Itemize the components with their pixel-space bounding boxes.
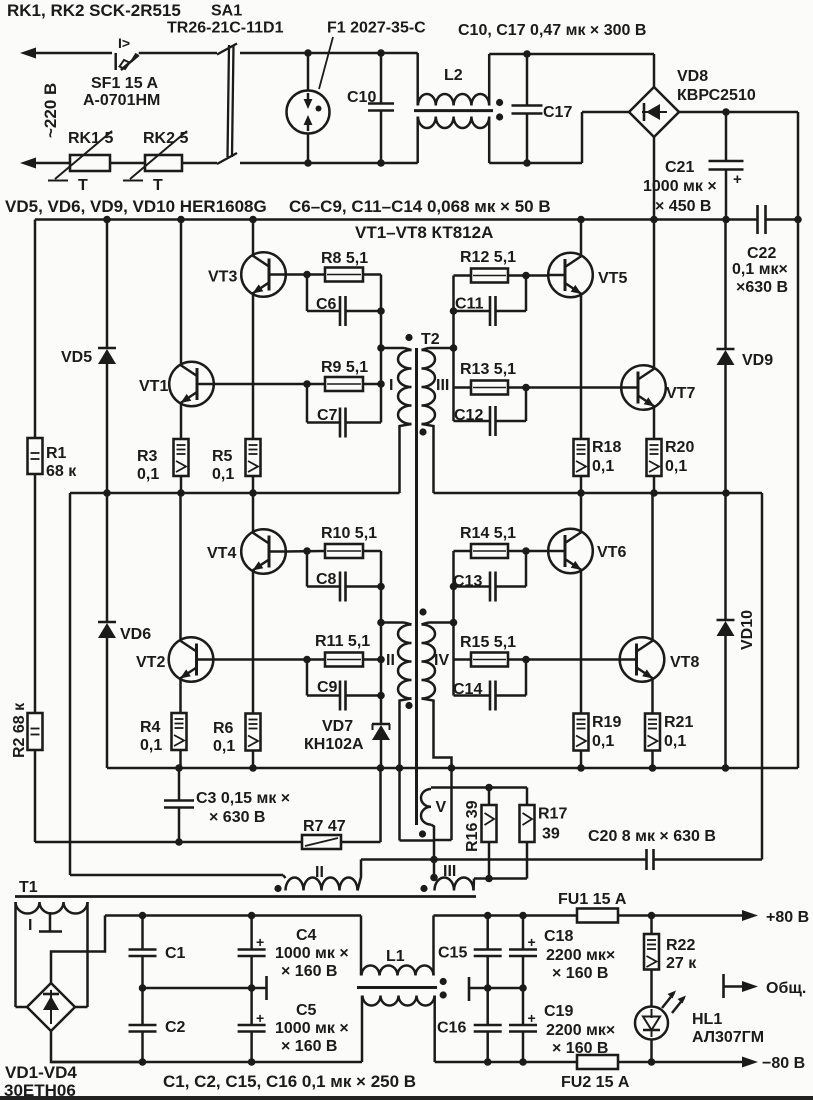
label L2 — [444, 67, 463, 84]
node junction T1 III — [430, 856, 438, 864]
resistor R21 — [645, 714, 660, 769]
svg-text:C9: C9 — [317, 679, 338, 696]
label SF1 15 A — [91, 75, 158, 92]
label VD5 — [61, 349, 92, 366]
resistor R18 — [574, 439, 589, 493]
label C13 — [453, 573, 482, 590]
resistor R15 — [471, 653, 508, 667]
wire T1 center tap — [39, 912, 62, 932]
svg-text:VT2: VT2 — [136, 654, 165, 671]
label AL307GM — [692, 1029, 764, 1046]
svg-text:+: + — [256, 1010, 264, 1026]
label VD7 — [322, 718, 353, 735]
node bus A right dots — [577, 489, 730, 497]
winding I of T1 — [16, 902, 88, 1007]
label VT7 — [666, 385, 695, 402]
svg-text:C13: C13 — [453, 573, 482, 590]
winding III of T2 — [422, 348, 454, 493]
wire VT5 emitter rail — [580, 296, 583, 440]
label R11 5,1 — [315, 633, 370, 650]
label VD8 — [677, 68, 708, 85]
capacitor C13 — [454, 551, 527, 602]
label VT8 — [670, 654, 699, 671]
switch SA1 ganged blades — [217, 44, 237, 165]
svg-text:× 160 В: × 160 В — [281, 963, 337, 980]
wire R15 left — [454, 658, 472, 661]
label C4 value2 — [281, 963, 337, 980]
transistor VT2 — [169, 637, 214, 682]
node polarity dot T1 III — [420, 885, 427, 892]
node polarity dot winding V — [419, 830, 426, 837]
label FU1 15 A — [558, 891, 627, 908]
capacitor C20 — [647, 849, 654, 870]
node junction HL1 bottom — [648, 1058, 656, 1066]
resistor R1 — [28, 220, 43, 714]
wire T1 to C20 — [361, 858, 646, 861]
svg-text:2200 мк×: 2200 мк× — [546, 947, 615, 964]
svg-text:С3 0,15 мк ×: С3 0,15 мк × — [196, 790, 290, 807]
node junction R9 right — [377, 380, 385, 388]
capacitor C18 — [509, 916, 537, 989]
resistor R14 — [471, 544, 508, 558]
label R2 68k — [11, 702, 28, 758]
wire collector bus — [35, 218, 758, 221]
label C22 — [747, 245, 776, 262]
resistor R22 — [644, 916, 659, 1007]
label R7 47 — [303, 818, 346, 835]
wire bottom rail left — [51, 1061, 362, 1064]
node junction winding III top — [450, 344, 458, 352]
label C4 value1 — [275, 945, 349, 962]
label R17 value — [542, 826, 560, 843]
label T of RK2 — [153, 177, 163, 194]
svg-text:C1: C1 — [165, 945, 186, 962]
wire top bus to bridge — [489, 53, 654, 56]
capacitor C3 — [164, 768, 194, 842]
svg-text:VT7: VT7 — [666, 385, 695, 402]
svg-text:0,1: 0,1 — [592, 733, 614, 750]
wire VT8 emitter — [651, 680, 654, 714]
resistor R19 — [574, 714, 589, 769]
transistor VT5 — [548, 253, 593, 298]
wire VT7 collector — [653, 220, 656, 368]
wire VT6 emitter rail — [580, 572, 583, 714]
svg-text:+: + — [256, 934, 264, 950]
svg-text:III: III — [443, 863, 456, 880]
svg-text:VD1-VD4: VD1-VD4 — [5, 1063, 77, 1082]
label R21 — [664, 714, 693, 731]
label VT4 — [207, 545, 236, 562]
svg-text:R5: R5 — [212, 448, 233, 465]
svg-text:R1: R1 — [46, 445, 67, 462]
label TR26-21C-11D1 — [167, 20, 284, 37]
svg-text:КВРС2510: КВРС2510 — [677, 87, 756, 104]
wire bridge plus to C-row — [51, 916, 105, 984]
svg-text:R18: R18 — [592, 439, 621, 456]
wire winding V top feed — [431, 786, 527, 789]
svg-text:R19: R19 — [592, 714, 621, 731]
label RK2 5 — [143, 130, 188, 147]
label VT2 — [136, 654, 165, 671]
label II winding T1 — [315, 864, 324, 881]
svg-text:III: III — [436, 377, 449, 394]
node polarity dot winding III — [419, 428, 426, 435]
label A-0701HM — [83, 92, 160, 109]
node bus dots collector — [103, 216, 730, 224]
wire emitter bus left — [70, 492, 400, 495]
svg-text:TR26-21C-11D1: TR26-21C-11D1 — [167, 20, 284, 37]
wire VT8 collector — [651, 493, 654, 640]
svg-text:С20 8 мк × 630 В: С20 8 мк × 630 В — [588, 828, 716, 845]
label R6 — [213, 720, 234, 737]
svg-text:L2: L2 — [444, 67, 463, 84]
svg-text:R15 5,1: R15 5,1 — [460, 634, 516, 651]
svg-text:C6: C6 — [316, 296, 337, 313]
node junction R10 left — [303, 547, 311, 555]
label IV winding — [434, 652, 449, 669]
label R16 39 — [464, 800, 481, 852]
bridge rectifier VD1-VD4 — [16, 983, 88, 1031]
wire R2 to R7 — [35, 841, 302, 844]
svg-text:R7 47: R7 47 — [303, 818, 346, 835]
resistor R12 — [471, 269, 508, 283]
svg-text:SA1: SA1 — [211, 3, 242, 20]
label C1 C2 C15 C16 value — [163, 1072, 416, 1091]
wire plus rail left — [105, 914, 361, 917]
svg-text:×630 В: ×630 В — [736, 279, 788, 296]
node junction C11 left — [450, 307, 458, 315]
transistor VT6 — [548, 529, 593, 574]
label VT1 — [139, 378, 168, 395]
svg-text:VT8: VT8 — [670, 654, 699, 671]
resistor R13 — [471, 381, 508, 395]
label C1 — [165, 945, 186, 962]
surge arrester F1 — [287, 37, 334, 163]
svg-text:T: T — [78, 177, 88, 194]
capacitor C12 — [454, 388, 527, 437]
node bus A left dots — [103, 489, 257, 497]
svg-text:FU2 15 А: FU2 15 А — [561, 1074, 630, 1091]
node junction R11 right — [377, 656, 385, 664]
capacitor C17 — [512, 54, 543, 163]
svg-text:C12: C12 — [454, 407, 483, 424]
svg-text:0,1: 0,1 — [664, 733, 686, 750]
node junction R8 left — [303, 271, 311, 279]
svg-text:F1 2027-35-C: F1 2027-35-C — [327, 20, 426, 37]
svg-text:+: + — [528, 934, 536, 950]
wire from SA1 to L2 top — [240, 52, 418, 55]
wire R9 right — [363, 383, 381, 386]
label C16 — [437, 1020, 466, 1037]
svg-text:C10, C17 0,47 мк × 300 В: C10, C17 0,47 мк × 300 В — [458, 22, 646, 39]
label C17 — [543, 104, 572, 121]
svg-text:R8 5,1: R8 5,1 — [321, 250, 368, 267]
thermistor RK1 — [48, 131, 145, 181]
svg-text:R12 5,1: R12 5,1 — [460, 249, 516, 266]
label II winding — [386, 652, 395, 669]
svg-text:C17: C17 — [543, 104, 572, 121]
svg-text:Общ.: Общ. — [766, 980, 806, 997]
svg-text:~220 В: ~220 В — [41, 83, 60, 138]
node junction C12 top — [522, 384, 530, 392]
node junction winding II top — [377, 619, 385, 627]
label KBPC2510 — [677, 87, 756, 104]
svg-text:R21: R21 — [664, 714, 693, 731]
node junction C14 top — [522, 656, 530, 664]
node junction C10 bottom — [377, 159, 385, 167]
label C10, C17 0,47 mk x 300 V — [458, 22, 646, 39]
label R18 — [592, 439, 621, 456]
svg-text:C2: C2 — [165, 1019, 186, 1036]
svg-text:R22: R22 — [666, 937, 695, 954]
node junction C13 top — [522, 547, 530, 555]
wire VT3 collector — [252, 220, 255, 255]
wire R16 R17 bottom — [474, 877, 527, 880]
label R4 — [140, 719, 161, 736]
capacitor C6 — [307, 275, 381, 327]
node dots plus rail left — [139, 912, 256, 920]
svg-text:VD5, VD6, VD9, VD10 HER1608G: VD5, VD6, VD9, VD10 HER1608G — [5, 197, 267, 216]
svg-text:R14 5,1: R14 5,1 — [460, 525, 516, 542]
wire VT6 base — [508, 550, 550, 553]
capacitor C10 — [368, 53, 394, 163]
diode VD10 — [717, 493, 735, 768]
node dots bottom rail right — [484, 1058, 527, 1066]
label C22 value1 — [732, 261, 788, 278]
resistor R11 — [325, 653, 363, 667]
label R8 5,1 — [321, 250, 368, 267]
svg-text:I: I — [28, 917, 32, 934]
svg-text:C5: C5 — [296, 1002, 317, 1019]
svg-text:R6: R6 — [213, 720, 234, 737]
winding III of T1 — [434, 878, 474, 891]
label C19 — [544, 1003, 573, 1020]
node junction C3 bottom — [175, 838, 183, 846]
label C4 — [296, 927, 317, 944]
wire SA1 to L2 bottom — [240, 162, 418, 165]
svg-text:R20: R20 — [665, 439, 694, 456]
svg-text:C16: C16 — [437, 1020, 466, 1037]
capacitor C15 — [474, 916, 502, 1026]
label III winding T1 — [443, 863, 456, 880]
resistor R9 — [325, 377, 363, 391]
label VD6 — [120, 626, 151, 643]
label R22 value — [666, 955, 697, 972]
label C5 value1 — [275, 1020, 349, 1037]
label VT6 — [597, 544, 626, 561]
resistor R20 — [647, 439, 662, 493]
node junction R16 bottom — [485, 875, 493, 883]
svg-text:L1: L1 — [386, 948, 405, 965]
svg-text:+: + — [528, 1010, 536, 1026]
capacitor C5 — [238, 988, 266, 1062]
label R3 — [137, 448, 158, 465]
svg-text:1000 мк ×: 1000 мк × — [275, 945, 349, 962]
label VT3 — [208, 269, 237, 286]
terminal -80V — [742, 1055, 805, 1072]
label I> of SF1 — [118, 35, 130, 51]
wire bus A to T1 winding II — [70, 493, 283, 875]
inductor L1 common-mode choke — [357, 916, 437, 1063]
label R13 5,1 — [460, 361, 516, 378]
label 30ETH06 — [4, 1081, 76, 1100]
label C18 value1 — [546, 947, 615, 964]
capacitor C16 — [474, 1025, 502, 1062]
label C18 value2 — [552, 965, 608, 982]
svg-text:0,1: 0,1 — [665, 458, 687, 475]
node dots mid left — [139, 984, 256, 992]
svg-text:0,1: 0,1 — [592, 458, 614, 475]
node polarity dot winding I — [405, 334, 412, 341]
diode VD9 — [717, 220, 735, 494]
label R4 value — [140, 737, 162, 754]
svg-text:IV: IV — [434, 652, 449, 669]
winding II of T2 — [381, 623, 412, 769]
label C6-C9 C11-C14 value — [289, 197, 551, 216]
transformer T1 core — [15, 895, 476, 898]
label V winding — [436, 799, 447, 816]
svg-text:R3: R3 — [137, 448, 158, 465]
node bus B dots — [175, 764, 729, 772]
wire C20 right — [654, 858, 762, 861]
wire VT7 base — [508, 386, 622, 389]
svg-text:+: + — [733, 171, 742, 188]
label C20 value — [588, 828, 716, 845]
label VD1-VD4 — [5, 1063, 77, 1082]
wire R13 left — [454, 386, 472, 389]
label VD10 — [739, 610, 756, 650]
label C3 value1 — [196, 790, 290, 807]
winding II of T1 — [283, 860, 361, 891]
node L1 polarity dots — [440, 978, 447, 999]
wire emitter bus right — [434, 492, 763, 495]
wire VT8 base — [508, 658, 621, 661]
fuse FU2 — [577, 1055, 744, 1069]
node T1 III left top — [430, 874, 438, 882]
transistor VT4 — [241, 529, 286, 574]
terminal +80V — [742, 909, 809, 926]
node ~220 B label — [41, 83, 60, 138]
wire VT4 collector — [252, 493, 255, 531]
capacitor C21 — [709, 112, 744, 220]
label C18 — [544, 928, 573, 945]
wire mid wire right — [469, 987, 523, 990]
svg-text:VT5: VT5 — [598, 270, 627, 287]
label T2 — [421, 331, 440, 348]
node tap bar left — [265, 976, 268, 1000]
label RK1, RK2 SCK-2R515 — [7, 1, 181, 20]
svg-text:C7: C7 — [317, 407, 338, 424]
wire bottom rail right — [435, 1061, 577, 1064]
svg-text:R16 39: R16 39 — [464, 800, 481, 852]
label HL1 — [692, 1011, 722, 1028]
svg-text:A-0701HM: A-0701HM — [83, 92, 160, 109]
capacitor C8 — [307, 551, 381, 602]
winding I of T2 — [381, 348, 412, 493]
wire VT2 emitter — [179, 680, 182, 714]
svg-text:VT6: VT6 — [597, 544, 626, 561]
label C7 — [317, 407, 338, 424]
wire VT3 base — [285, 273, 325, 276]
svg-text:1000 мк ×: 1000 мк × — [643, 178, 717, 195]
fuse FU1 — [577, 909, 744, 923]
label III winding — [436, 377, 449, 394]
label VD5 VD6 VD9 VD10 HER1608G — [5, 197, 267, 216]
label C21 value2 — [655, 198, 711, 215]
wire VT1 collector — [180, 220, 183, 365]
wire emitter bus B — [107, 767, 798, 770]
diode VD7 thyristor — [372, 696, 390, 769]
label C22 value2 — [736, 279, 788, 296]
label R20 — [665, 439, 694, 456]
wire VT1 emitter — [180, 404, 183, 439]
capacitor C4 — [238, 916, 266, 989]
wire VT5 collector — [580, 220, 583, 255]
label C12 — [454, 407, 483, 424]
svg-text:T2: T2 — [421, 331, 440, 348]
svg-text:R13 5,1: R13 5,1 — [460, 361, 516, 378]
label KN102A — [304, 736, 364, 753]
svg-text:C18: C18 — [544, 928, 573, 945]
svg-text:0,1: 0,1 — [140, 737, 162, 754]
resistor R3 — [174, 439, 189, 493]
svg-text:T1: T1 — [19, 879, 38, 896]
label R18 value — [592, 458, 614, 475]
resistor R7 — [302, 768, 381, 849]
wire bridge minus to bottom rail — [51, 1031, 143, 1062]
winding V of T2 — [421, 789, 434, 878]
svg-text:C10: C10 — [347, 89, 376, 106]
decor bottom scan band — [0, 1096, 813, 1100]
label R1 — [46, 445, 67, 462]
label T1 — [19, 879, 38, 896]
capacitor C1 — [129, 916, 157, 989]
label SA1 — [211, 3, 242, 20]
node junction R16 top — [485, 784, 493, 792]
transistor VT8 — [620, 637, 665, 682]
node junction R22 top — [648, 912, 656, 920]
label R10 5,1 — [321, 525, 377, 542]
resistor R8 — [325, 268, 363, 282]
svg-text:R10 5,1: R10 5,1 — [321, 525, 377, 542]
wire ~220V lower feed with arrow — [20, 158, 70, 169]
label C21 — [665, 159, 694, 176]
node dots mid right — [484, 984, 527, 992]
label C8 — [316, 571, 337, 588]
resistor R17 — [520, 788, 535, 879]
label C6 — [316, 296, 337, 313]
svg-text:R17: R17 — [538, 806, 567, 823]
wire ~220V upper feed with arrow — [20, 48, 112, 59]
svg-text:V: V — [436, 799, 447, 816]
node junction C8 right — [377, 583, 385, 591]
wire VT4 base — [285, 550, 325, 553]
svg-text:VT4: VT4 — [207, 545, 236, 562]
wire plus rail right — [434, 914, 578, 917]
svg-text:0,1 мк×: 0,1 мк× — [732, 261, 788, 278]
svg-text:VD8: VD8 — [677, 68, 708, 85]
svg-text:+80 В: +80 В — [766, 909, 809, 926]
svg-text:VD7: VD7 — [322, 718, 353, 735]
svg-text:VT1–VT8 КТ812А: VT1–VT8 КТ812А — [355, 223, 493, 242]
node junction C9 right — [377, 692, 385, 700]
svg-text:II: II — [315, 864, 324, 881]
resistor R10 — [325, 544, 363, 558]
label C3 value2 — [209, 809, 265, 826]
transistor VT7 — [621, 365, 666, 410]
node polarity dot winding IV — [419, 608, 426, 615]
label R6 value — [213, 738, 235, 755]
